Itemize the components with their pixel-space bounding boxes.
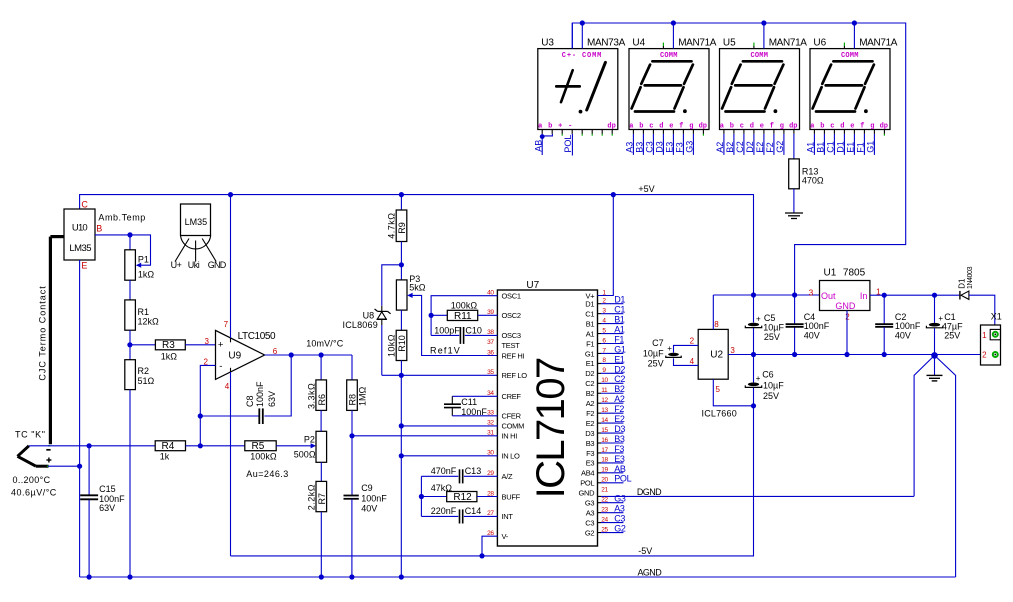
- wire P1 to R1: [129, 280, 131, 300]
- svg-text:G2: G2: [775, 141, 785, 153]
- resistor R1 12k: [125, 300, 159, 330]
- svg-text:D1: D1: [836, 141, 846, 153]
- IC U2 ICL7660: [690, 320, 737, 418]
- svg-text:U+: U+: [171, 260, 182, 270]
- wire A/Z BUFF INT left column: [419, 476, 424, 516]
- svg-text:E1: E1: [586, 359, 595, 368]
- svg-text:1: 1: [982, 331, 987, 340]
- svg-text:E2: E2: [586, 419, 595, 428]
- svg-text:F1: F1: [614, 334, 624, 344]
- svg-text:R12: R12: [453, 492, 472, 503]
- wire P3 to R10: [400, 310, 402, 330]
- svg-text:dp: dp: [880, 123, 888, 131]
- svg-text:5kΩ: 5kΩ: [409, 283, 426, 293]
- display U4 top NC pin: [662, 43, 664, 49]
- junction dots on +5V rail: [228, 192, 233, 197]
- svg-text:G1: G1: [866, 141, 876, 153]
- svg-text:10µF: 10µF: [763, 380, 784, 390]
- display U6 bottom pins a-g dp: [810, 123, 888, 136]
- svg-text:INT: INT: [502, 512, 514, 521]
- resistor R13: [789, 159, 824, 189]
- svg-text:D1: D1: [957, 278, 966, 289]
- svg-text:1kΩ: 1kΩ: [138, 269, 155, 279]
- svg-text:OSC1: OSC1: [502, 292, 521, 301]
- svg-text:D3: D3: [614, 424, 625, 434]
- svg-text:A2: A2: [614, 394, 625, 404]
- wire U5 COMM to bus: [763, 23, 765, 49]
- wire op-amp output: [265, 352, 352, 357]
- svg-text:2: 2: [690, 337, 695, 346]
- svg-text:B1: B1: [586, 319, 595, 328]
- svg-text:d: d: [840, 123, 844, 131]
- svg-text:A3: A3: [625, 142, 635, 153]
- svg-text:P1: P1: [138, 254, 149, 264]
- svg-text:B: B: [96, 223, 102, 233]
- svg-text:f: f: [679, 123, 683, 131]
- svg-text:C2: C2: [735, 141, 745, 153]
- svg-text:B3: B3: [586, 439, 595, 448]
- svg-text:1MΩ: 1MΩ: [358, 386, 368, 406]
- thermocouple TC K connector: [18, 446, 52, 466]
- svg-text:A/Z: A/Z: [502, 472, 513, 481]
- labels U6 segment nets: [806, 141, 876, 153]
- wire P3 wiper to REF HI (Ref1V): [407, 293, 497, 356]
- svg-text:C11: C11: [461, 397, 477, 407]
- svg-text:+: +: [667, 344, 672, 353]
- svg-text:P2: P2: [304, 434, 315, 444]
- svg-text:e: e: [760, 123, 764, 131]
- svg-text:R10: R10: [397, 335, 407, 352]
- svg-text:R7: R7: [317, 493, 327, 505]
- display U3 (MAN73A): [538, 38, 626, 130]
- wire AGND rail: [80, 574, 956, 579]
- junction dots on display bus: [580, 20, 585, 25]
- potentiometer P3 5k: [396, 274, 425, 310]
- svg-text:g: g: [689, 123, 693, 131]
- svg-text:-: -: [568, 123, 572, 131]
- svg-text:AB4: AB4: [581, 469, 594, 478]
- U7 right pin stub wires and segment net labels: [598, 295, 632, 534]
- resistor R5 100k: [245, 441, 277, 462]
- svg-text:10mV/°C: 10mV/°C: [306, 338, 344, 348]
- svg-text:U4: U4: [632, 38, 645, 49]
- wire IN LO pin30: [401, 455, 497, 457]
- svg-text:C3: C3: [585, 518, 594, 527]
- svg-text:Out: Out: [821, 291, 836, 301]
- svg-text:-: -: [219, 361, 222, 372]
- svg-text:e: e: [669, 123, 673, 131]
- svg-text:DGND: DGND: [637, 487, 662, 497]
- wire U10 B to P1: [95, 232, 151, 268]
- svg-text:F1: F1: [856, 142, 866, 153]
- svg-text:B1: B1: [816, 142, 826, 153]
- display U6 top NC pin: [843, 43, 845, 49]
- svg-text:-5V: -5V: [638, 546, 652, 556]
- svg-text:LM35: LM35: [69, 243, 91, 254]
- svg-text:C+- COMM: C+- COMM: [562, 52, 602, 60]
- svg-text:A2: A2: [715, 142, 725, 153]
- svg-text:B3: B3: [635, 142, 645, 153]
- svg-text:MAN71A: MAN71A: [678, 38, 717, 49]
- svg-text:21: 21: [601, 487, 608, 494]
- resistor R7 2.2k: [306, 462, 327, 577]
- svg-text:C7: C7: [652, 338, 664, 348]
- zener U8 ICL8069: [343, 265, 402, 376]
- svg-text:d: d: [750, 123, 754, 131]
- svg-text:B1: B1: [614, 315, 625, 325]
- capacitor C14 220nF: [421, 506, 497, 523]
- svg-text:B2: B2: [614, 384, 625, 394]
- svg-text:7: 7: [224, 320, 229, 329]
- svg-text:4: 4: [690, 357, 695, 366]
- svg-text:12kΩ: 12kΩ: [138, 317, 160, 327]
- svg-text:D1: D1: [614, 295, 625, 305]
- svg-text:100nF: 100nF: [361, 493, 387, 503]
- U7 right pin numbers: [601, 289, 608, 533]
- svg-text:40V: 40V: [804, 331, 820, 341]
- svg-text:A1: A1: [586, 329, 595, 338]
- svg-text:GND: GND: [579, 489, 596, 498]
- display U3 bottom pins a b + -: [538, 123, 616, 136]
- svg-text:C8: C8: [245, 395, 255, 407]
- display U4 (MAN71A): [629, 38, 717, 130]
- wire U2 pin5: [713, 379, 756, 408]
- svg-text:F3: F3: [675, 142, 685, 153]
- svg-text:F3: F3: [586, 449, 594, 458]
- svg-text:F2: F2: [614, 404, 624, 414]
- svg-text:F2: F2: [765, 142, 775, 153]
- svg-text:1kΩ: 1kΩ: [161, 351, 178, 361]
- wire IN HI pin31: [352, 435, 497, 437]
- svg-text:4.7kΩ: 4.7kΩ: [387, 212, 397, 238]
- svg-text:3.3kΩ: 3.3kΩ: [306, 383, 316, 409]
- wire R2 to AGND rail: [129, 390, 131, 577]
- svg-text:AGND: AGND: [638, 567, 663, 577]
- wire R4 to R5: [186, 443, 245, 448]
- svg-text:40.6µV/°C: 40.6µV/°C: [11, 488, 57, 498]
- svg-text:c: c: [649, 123, 653, 131]
- wire op-amp pin2: [200, 365, 215, 445]
- transistor-style sensor U10 LM35: [64, 199, 102, 270]
- svg-text:2.2kΩ: 2.2kΩ: [306, 484, 316, 510]
- svg-text:POL: POL: [580, 479, 594, 488]
- svg-text:ICL7107: ICL7107: [529, 358, 573, 498]
- svg-text:4: 4: [225, 382, 230, 391]
- svg-text:C13: C13: [465, 466, 482, 476]
- svg-text:25V: 25V: [764, 332, 780, 342]
- svg-text:7805: 7805: [843, 268, 866, 279]
- svg-text:In: In: [860, 291, 868, 301]
- svg-text:Au=246.3: Au=246.3: [246, 469, 288, 479]
- svg-text:E3: E3: [586, 459, 595, 468]
- display U6 (MAN71A): [810, 38, 898, 130]
- svg-text:CJC Termo Contact: CJC Termo Contact: [37, 285, 47, 380]
- svg-text:R11: R11: [454, 311, 472, 322]
- wire REF LO node: [382, 373, 498, 378]
- svg-text:25V: 25V: [763, 391, 779, 401]
- svg-text:36: 36: [487, 349, 494, 356]
- svg-text:D2: D2: [614, 364, 625, 374]
- svg-text:b: b: [548, 123, 552, 131]
- svg-text:dp: dp: [789, 123, 797, 131]
- diode D1 1N4003: [957, 266, 974, 299]
- svg-text:100kΩ: 100kΩ: [250, 451, 277, 461]
- wire REF LO column to AGND: [399, 375, 404, 577]
- svg-text:500Ω: 500Ω: [294, 450, 316, 460]
- svg-text:F3: F3: [614, 444, 624, 454]
- svg-text:3: 3: [809, 288, 814, 297]
- connector X1: [981, 312, 1002, 365]
- svg-text:REF LO: REF LO: [502, 371, 528, 380]
- svg-text:25V: 25V: [648, 359, 664, 369]
- svg-text:POL: POL: [563, 135, 573, 153]
- svg-text:IN LO: IN LO: [502, 452, 521, 461]
- star ground node: [914, 352, 956, 577]
- IC U7 ICL7107: [497, 280, 597, 546]
- svg-text:10µF: 10µF: [643, 348, 664, 358]
- svg-text:dp: dp: [699, 123, 707, 131]
- svg-text:E: E: [81, 261, 87, 271]
- green pin marks: [47, 446, 50, 466]
- svg-text:40V: 40V: [361, 503, 377, 513]
- svg-text:C14: C14: [465, 506, 482, 516]
- svg-text:R8: R8: [347, 394, 357, 406]
- svg-text:U9: U9: [228, 351, 241, 362]
- svg-text:POL: POL: [614, 474, 631, 484]
- svg-text:100nF: 100nF: [461, 407, 487, 417]
- svg-text:dp: dp: [607, 123, 615, 131]
- display U4 bottom pins a-g dp: [629, 123, 707, 136]
- svg-text:Uki: Uki: [188, 260, 200, 270]
- capacitor C11 100nF on CREF/CFER: [444, 396, 497, 417]
- svg-text:2: 2: [845, 312, 850, 321]
- svg-text:3: 3: [730, 346, 735, 355]
- svg-text:40V: 40V: [895, 331, 911, 341]
- svg-text:LM35: LM35: [185, 217, 208, 227]
- thick CJC wire from U10: [50, 237, 64, 445]
- resistor R10 10k: [387, 330, 408, 375]
- svg-text:U5: U5: [723, 38, 736, 49]
- svg-text:A1: A1: [806, 142, 816, 153]
- svg-text:e: e: [850, 123, 854, 131]
- svg-text:G1: G1: [585, 349, 595, 358]
- wire R5 to P2 wiper: [276, 443, 316, 448]
- resistor R6 3.3k: [306, 355, 327, 431]
- svg-text:X1: X1: [991, 312, 1002, 322]
- svg-text:E2: E2: [755, 142, 765, 153]
- svg-text:IN HI: IN HI: [502, 432, 518, 441]
- display U3 digit +1 and dp: [556, 62, 605, 113]
- svg-text:+: +: [218, 340, 224, 351]
- svg-text:f: f: [770, 123, 774, 131]
- svg-text:R3: R3: [162, 340, 175, 351]
- svg-text:100pF: 100pF: [434, 326, 460, 336]
- svg-text:COMM: COMM: [502, 422, 525, 431]
- wire op-amp pin4 to -5V: [230, 368, 232, 372]
- wire U1 In net: [870, 293, 959, 298]
- svg-text:COMM: COMM: [841, 52, 859, 60]
- svg-text:U1: U1: [824, 268, 837, 279]
- capacitor C4 100nF: [786, 312, 830, 341]
- svg-text:G2: G2: [585, 528, 595, 537]
- capacitor C10 100pF: [431, 326, 497, 344]
- svg-text:470Ω: 470Ω: [802, 176, 824, 186]
- svg-text:COMM: COMM: [751, 52, 769, 60]
- svg-text:R6: R6: [317, 394, 327, 406]
- svg-text:63V: 63V: [99, 503, 115, 513]
- svg-text:C1: C1: [826, 141, 836, 153]
- svg-text:ICL7660: ICL7660: [702, 409, 737, 419]
- svg-text:ICL8069: ICL8069: [343, 320, 378, 330]
- svg-text:R9: R9: [397, 222, 407, 234]
- wire bus to ground rail through C4 column: [794, 327, 796, 355]
- wire U10 E down to TC+ and AGND: [79, 260, 81, 577]
- resistor R12 47k: [421, 483, 497, 503]
- svg-text:10kΩ: 10kΩ: [387, 334, 397, 357]
- wire R13 to ground: [793, 189, 795, 213]
- display U3 top pins to +5V bus: [571, 23, 573, 49]
- svg-text:c: c: [830, 123, 834, 131]
- svg-text:OSC2: OSC2: [502, 311, 521, 320]
- display U4 digit 8: [632, 61, 693, 113]
- svg-text:E3: E3: [614, 454, 625, 464]
- labels U4 segment nets: [625, 141, 695, 153]
- svg-text:B2: B2: [586, 389, 595, 398]
- svg-text:100kΩ: 100kΩ: [451, 301, 478, 311]
- svg-text:G3: G3: [685, 141, 695, 153]
- svg-text:U2: U2: [710, 349, 723, 360]
- ground symbol main: [927, 375, 943, 381]
- svg-text:G3: G3: [585, 499, 595, 508]
- wire U7 pin21 DGND net: [598, 495, 914, 497]
- svg-text:E1: E1: [614, 354, 625, 364]
- wire -5V net: [231, 406, 754, 559]
- svg-text:OSC3: OSC3: [502, 331, 521, 340]
- display U5 digit 8: [722, 61, 783, 113]
- wire op-amp pin7 to +5V: [230, 195, 232, 338]
- capacitor C8 100nF 63V: [245, 381, 277, 424]
- svg-text:F1: F1: [586, 339, 594, 348]
- svg-text:B3: B3: [614, 434, 625, 444]
- svg-text:0..200°C: 0..200°C: [13, 475, 51, 485]
- svg-text:Ref1V: Ref1V: [430, 346, 461, 356]
- capacitor C9 100nF 40V: [344, 483, 388, 577]
- capacitor C1 47uF electrolytic: [926, 295, 963, 355]
- svg-text:AB: AB: [614, 464, 626, 474]
- op-amp U9 LTC1050: [203, 320, 277, 391]
- U7 left pin numbers: [487, 290, 494, 538]
- resistor R4 1k: [155, 441, 185, 462]
- wire +5V rail: [80, 195, 754, 295]
- svg-text:b: b: [730, 123, 734, 131]
- svg-text:C6: C6: [762, 369, 774, 379]
- svg-text:Amb.Temp: Amb.Temp: [98, 212, 145, 222]
- svg-text:3: 3: [204, 337, 209, 346]
- svg-text:35: 35: [487, 369, 494, 376]
- U7 left pin names: [502, 292, 528, 542]
- svg-text:BUFF: BUFF: [502, 492, 521, 501]
- svg-text:b: b: [639, 123, 643, 131]
- svg-text:G1: G1: [614, 344, 626, 354]
- resistor R9 4.7k: [387, 195, 408, 280]
- svg-text:GND: GND: [835, 301, 856, 311]
- display U6 digit 8: [813, 61, 874, 113]
- labels U5 segment nets: [715, 141, 785, 153]
- svg-text:U10: U10: [72, 223, 88, 234]
- capacitor C15 100nF: [80, 446, 125, 577]
- svg-text:C3: C3: [614, 514, 625, 524]
- svg-text:LTC1050: LTC1050: [238, 331, 276, 342]
- resistor R11 100k: [431, 301, 497, 322]
- wire U6 COMM to bus: [853, 23, 855, 49]
- wire U1 Out / +5V node: [713, 292, 819, 297]
- svg-text:G3: G3: [614, 494, 626, 504]
- wire U2 pin3 to ground rail: [728, 352, 992, 357]
- svg-text:C15: C15: [99, 484, 116, 494]
- svg-text:U7: U7: [526, 280, 539, 291]
- capacitor C5 10uF electrolytic: [745, 295, 784, 355]
- svg-text:E1: E1: [846, 142, 856, 153]
- potentiometer P1 1k: [125, 235, 155, 280]
- wire D1 to X1 pin1: [969, 295, 995, 332]
- wire U4 COMM to bus: [672, 23, 674, 49]
- wire net AB (U3 pins a,b): [540, 134, 553, 155]
- svg-text:C1: C1: [585, 309, 594, 318]
- wires U5 segment nets: [724, 134, 784, 155]
- potentiometer P2 500ohm: [294, 431, 327, 462]
- wire U5 dp to R13: [793, 134, 795, 159]
- svg-text:C10: C10: [465, 326, 482, 336]
- svg-text:1N4003: 1N4003: [967, 266, 974, 289]
- svg-text:TC "K": TC "K": [15, 430, 46, 440]
- resistor R3 1k: [130, 340, 216, 362]
- wires U4 segment nets: [633, 134, 693, 155]
- svg-text:5: 5: [716, 385, 721, 394]
- svg-text:MAN71A: MAN71A: [859, 38, 898, 49]
- svg-text:C2: C2: [614, 374, 625, 384]
- svg-text:25V: 25V: [944, 331, 960, 341]
- svg-text:C3: C3: [645, 141, 655, 153]
- capacitor C7 10uF electrolytic: [643, 338, 681, 368]
- svg-text:d: d: [659, 123, 663, 131]
- svg-text:b: b: [820, 123, 824, 131]
- svg-text:D3: D3: [585, 429, 594, 438]
- svg-text:A3: A3: [614, 504, 625, 514]
- svg-text:D3: D3: [655, 141, 665, 153]
- wires U6 segment nets: [814, 134, 874, 155]
- LM35 package drawing: [171, 204, 227, 270]
- wire TC plus: [48, 464, 82, 469]
- svg-text:63V: 63V: [267, 391, 277, 407]
- svg-text:C1: C1: [614, 305, 625, 315]
- IC U1 7805 regulator: [809, 268, 881, 322]
- capacitor C13 470nF: [421, 466, 497, 483]
- svg-text:D1: D1: [585, 300, 594, 309]
- svg-text:C9: C9: [361, 483, 373, 493]
- ground symbol below R13: [785, 213, 803, 219]
- svg-text:47kΩ: 47kΩ: [431, 483, 453, 493]
- svg-text:10µF: 10µF: [763, 323, 784, 333]
- capacitor C2 100nF: [875, 295, 921, 354]
- svg-text:E3: E3: [665, 142, 675, 153]
- svg-text:U3: U3: [541, 38, 554, 49]
- svg-text:CFER: CFER: [502, 412, 522, 421]
- svg-text:E2: E2: [614, 414, 625, 424]
- wire display common bus: [572, 23, 905, 324]
- svg-text:D2: D2: [585, 369, 594, 378]
- wire U1 GND pin to rail: [846, 311, 848, 355]
- display U5 (MAN71A): [720, 38, 808, 130]
